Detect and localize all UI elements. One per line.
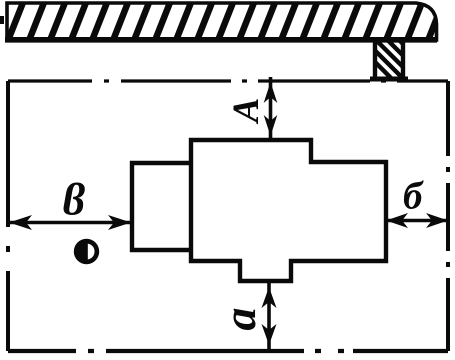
dimension arrow v (left, horizontal) xyxy=(8,215,131,230)
dash-dot boundary bottom xyxy=(8,349,448,353)
half-filled datum circle xyxy=(74,239,99,264)
hanging hatched support block xyxy=(351,38,455,84)
left attached block xyxy=(132,163,191,250)
stepped part outline xyxy=(191,140,386,281)
dimension arrow A (top, vertical) xyxy=(264,77,278,142)
wall bar (hatched ceiling) xyxy=(0,0,444,43)
svg-text:ϐ: ϐ xyxy=(62,175,85,225)
support block outline xyxy=(375,41,403,77)
dash-dot boundary left xyxy=(6,81,10,351)
svg-text:а: а xyxy=(214,308,265,331)
wall bar outline xyxy=(7,3,437,40)
dash-dot boundary right xyxy=(446,81,450,351)
dimension arrow b (right, horizontal) xyxy=(386,213,448,228)
svg-text:б: б xyxy=(403,175,424,218)
scan nub on left image edge xyxy=(0,16,4,24)
svg-text:А: А xyxy=(226,98,267,125)
dimension arrow a (bottom, vertical) xyxy=(262,283,277,353)
dash-dot boundary top xyxy=(8,79,448,82)
